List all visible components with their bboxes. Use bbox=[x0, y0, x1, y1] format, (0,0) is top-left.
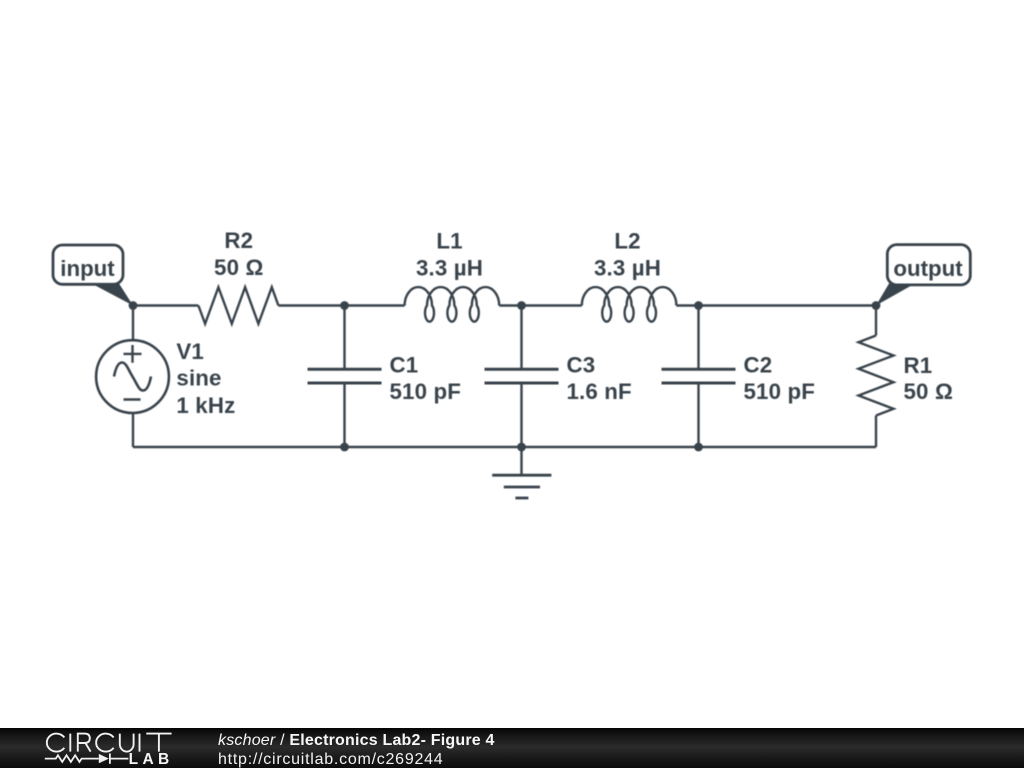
svg-text:1 kHz: 1 kHz bbox=[176, 393, 235, 418]
svg-text:L2: L2 bbox=[614, 228, 640, 253]
svg-text:output: output bbox=[893, 256, 963, 281]
svg-text:sine: sine bbox=[176, 366, 221, 391]
svg-text:L1: L1 bbox=[436, 228, 462, 253]
svg-text:50 Ω: 50 Ω bbox=[214, 255, 263, 280]
svg-text:3.3 µH: 3.3 µH bbox=[416, 256, 483, 281]
svg-text:LAB: LAB bbox=[129, 751, 174, 768]
svg-text:input: input bbox=[60, 256, 115, 281]
svg-text:50 Ω: 50 Ω bbox=[904, 379, 953, 404]
svg-text:R2: R2 bbox=[224, 228, 253, 253]
svg-text:R1: R1 bbox=[904, 353, 933, 378]
svg-text:3.3 µH: 3.3 µH bbox=[594, 256, 661, 281]
svg-text:C1: C1 bbox=[390, 353, 419, 378]
svg-text:510 pF: 510 pF bbox=[390, 379, 462, 404]
svg-text:V1: V1 bbox=[176, 339, 204, 364]
svg-text:C2: C2 bbox=[744, 353, 773, 378]
svg-text:510 pF: 510 pF bbox=[744, 379, 816, 404]
svg-text:C3: C3 bbox=[567, 353, 596, 378]
svg-text:1.6 nF: 1.6 nF bbox=[567, 379, 632, 404]
